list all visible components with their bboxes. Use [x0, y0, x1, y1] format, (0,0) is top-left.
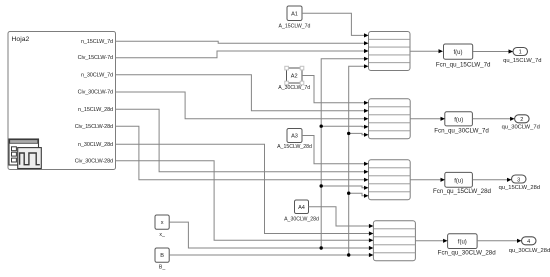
junction x_ at M4 — [320, 246, 323, 249]
junction B_ at M4 — [347, 253, 350, 256]
wire M3 to U3 — [410, 178, 445, 182]
constant x — [155, 215, 169, 238]
svg-text:A_15CLW_7d: A_15CLW_7d — [279, 24, 311, 30]
svg-text:Fcn_qu_30CLW_7d: Fcn_qu_30CLW_7d — [434, 127, 489, 134]
svg-text:4: 4 — [527, 239, 530, 245]
constant A3 — [277, 129, 312, 151]
svg-text:Civ_30CLW-28d: Civ_30CLW-28d — [75, 158, 113, 164]
svg-text:3: 3 — [517, 177, 520, 183]
svg-text:n_30CLW_7d: n_30CLW_7d — [81, 72, 113, 78]
svg-text:qu_15CLW_28d: qu_15CLW_28d — [499, 185, 540, 191]
wire U3 to outport 3 — [473, 178, 512, 182]
wire Civ_30CLW_28d to M4 — [116, 161, 374, 243]
svg-text:B: B — [160, 253, 164, 259]
svg-text:n_15CLW_7d: n_15CLW_7d — [81, 39, 113, 45]
svg-text:qu_30CLW_28d: qu_30CLW_28d — [509, 248, 550, 254]
wire A2 to M2 — [302, 76, 369, 105]
svg-text:qu_15CLW_7d: qu_15CLW_7d — [503, 58, 541, 64]
from-spreadsheet icon — [9, 139, 41, 169]
constant A4 — [284, 200, 319, 222]
svg-text:A_15CLW_28d: A_15CLW_28d — [277, 144, 312, 150]
svg-text:Civ_15CLW-28d: Civ_15CLW-28d — [75, 124, 113, 130]
svg-text:x_: x_ — [159, 232, 165, 238]
wire x_ to M4 — [169, 222, 373, 250]
svg-text:B_: B_ — [159, 264, 165, 270]
svg-text:f(u): f(u) — [454, 178, 463, 184]
svg-text:1: 1 — [519, 50, 522, 56]
wire Civ_15CLW_7d to M1 — [116, 49, 369, 58]
wire Civ_30CLW_7d to M2 — [116, 92, 369, 121]
svg-text:n_15CLW_28d: n_15CLW_28d — [78, 107, 113, 113]
wire U2 to outport 2 — [473, 117, 515, 121]
svg-text:A_30CLW_28d: A_30CLW_28d — [284, 216, 319, 222]
constant B — [155, 248, 169, 270]
mux M4 — [373, 221, 415, 261]
svg-text:Hoja2: Hoja2 — [12, 36, 30, 43]
mux M1 — [369, 32, 411, 71]
wire n_30CLW_28d to M4 — [116, 144, 374, 235]
outport 4 — [509, 237, 550, 254]
constant A1 — [279, 6, 311, 30]
wire M2 to U2 — [410, 117, 445, 121]
subsystem Hoja2 — [8, 32, 116, 170]
outport 3 — [499, 175, 540, 191]
wire M4 to U4 — [415, 239, 447, 243]
wire M1 to U1 — [410, 49, 443, 53]
branch B_ to M3 — [347, 192, 369, 198]
wire B_ to M4 — [169, 253, 373, 257]
outport 1 — [503, 48, 541, 64]
svg-text:A1: A1 — [291, 11, 298, 17]
svg-text:qu_30CLW_7d: qu_30CLW_7d — [502, 124, 540, 130]
mux M3 — [369, 160, 411, 200]
wire Civ_15CLW_28d to M3 — [116, 126, 369, 182]
wire U1 to outport 1 — [473, 49, 513, 53]
fcn U4 f(u) — [438, 234, 497, 257]
svg-text:Fcn_qu_15CLW_28d: Fcn_qu_15CLW_28d — [433, 188, 492, 195]
svg-text:A3: A3 — [291, 134, 298, 140]
fcn U1 f(u) — [436, 44, 491, 68]
trunk x_ vertical — [321, 57, 368, 248]
constant A2 (selected) — [278, 66, 310, 91]
fcn U2 f(u) — [434, 112, 489, 135]
branch x_ to M3 — [320, 184, 369, 190]
branch x_ to M2 — [320, 125, 369, 129]
outport 2 — [502, 115, 540, 131]
svg-text:f(u): f(u) — [454, 50, 463, 56]
wire U4 to outport 4 — [477, 239, 521, 243]
branch B_ to M2 — [347, 132, 369, 137]
wire n_15CLW_7d to M1 — [116, 41, 369, 45]
svg-text:Civ_30CLW-7d: Civ_30CLW-7d — [78, 90, 113, 96]
mux M2 — [369, 99, 411, 139]
svg-text:2: 2 — [520, 117, 523, 123]
wire n_30CLW_7d to M2 — [116, 75, 369, 113]
trunk B_ vertical — [349, 64, 369, 255]
svg-text:n_30CLW_28d: n_30CLW_28d — [78, 142, 113, 148]
svg-text:A_30CLW_7d: A_30CLW_7d — [278, 85, 310, 91]
wire A1 to M1 — [302, 13, 369, 37]
svg-text:Civ_15CLW-7d: Civ_15CLW-7d — [78, 55, 113, 61]
svg-text:x: x — [161, 220, 164, 226]
svg-text:f(u): f(u) — [454, 117, 463, 123]
svg-text:A4: A4 — [298, 205, 305, 211]
svg-text:Fcn_qu_30CLW_28d: Fcn_qu_30CLW_28d — [438, 250, 497, 257]
wire A3 to M3 — [302, 136, 369, 166]
svg-text:A2: A2 — [291, 74, 298, 80]
wire n_15CLW_28d to M3 — [116, 109, 369, 174]
svg-text:f(u): f(u) — [458, 240, 467, 246]
fcn U3 f(u) — [433, 172, 492, 195]
wire A4 to M4 — [309, 207, 374, 228]
svg-text:Fcn_qu_15CLW_7d: Fcn_qu_15CLW_7d — [436, 61, 491, 68]
